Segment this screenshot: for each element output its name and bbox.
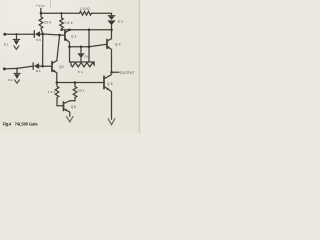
svg-text:D2: D2 — [8, 78, 13, 82]
svg-text:5.5 k: 5.5 k — [78, 89, 85, 93]
svg-text:Fig.4: Fig.4 — [3, 121, 12, 126]
svg-text:D1: D1 — [4, 43, 9, 47]
svg-text:110Ω: 110Ω — [80, 7, 90, 11]
svg-text:D6: D6 — [85, 55, 90, 59]
svg-text:D3: D3 — [36, 38, 41, 42]
svg-text:20 k: 20 k — [44, 20, 51, 24]
svg-text:D4: D4 — [36, 69, 41, 73]
svg-text:Q1: Q1 — [71, 35, 77, 39]
svg-text:OUTPUT: OUTPUT — [120, 71, 135, 75]
svg-text:D5: D5 — [118, 20, 123, 24]
svg-text:Q3: Q3 — [59, 65, 64, 69]
svg-text:7.6 k: 7.6 k — [64, 21, 73, 25]
svg-text:+Vcc: +Vcc — [36, 4, 45, 8]
svg-text:Q4: Q4 — [115, 42, 121, 46]
svg-text:74LS00 Gate: 74LS00 Gate — [15, 121, 39, 126]
svg-text:5 k: 5 k — [78, 70, 84, 74]
svg-text:Q5: Q5 — [107, 82, 113, 86]
svg-text:1.5 k: 1.5 k — [48, 90, 56, 94]
svg-text:Q6: Q6 — [71, 105, 76, 109]
